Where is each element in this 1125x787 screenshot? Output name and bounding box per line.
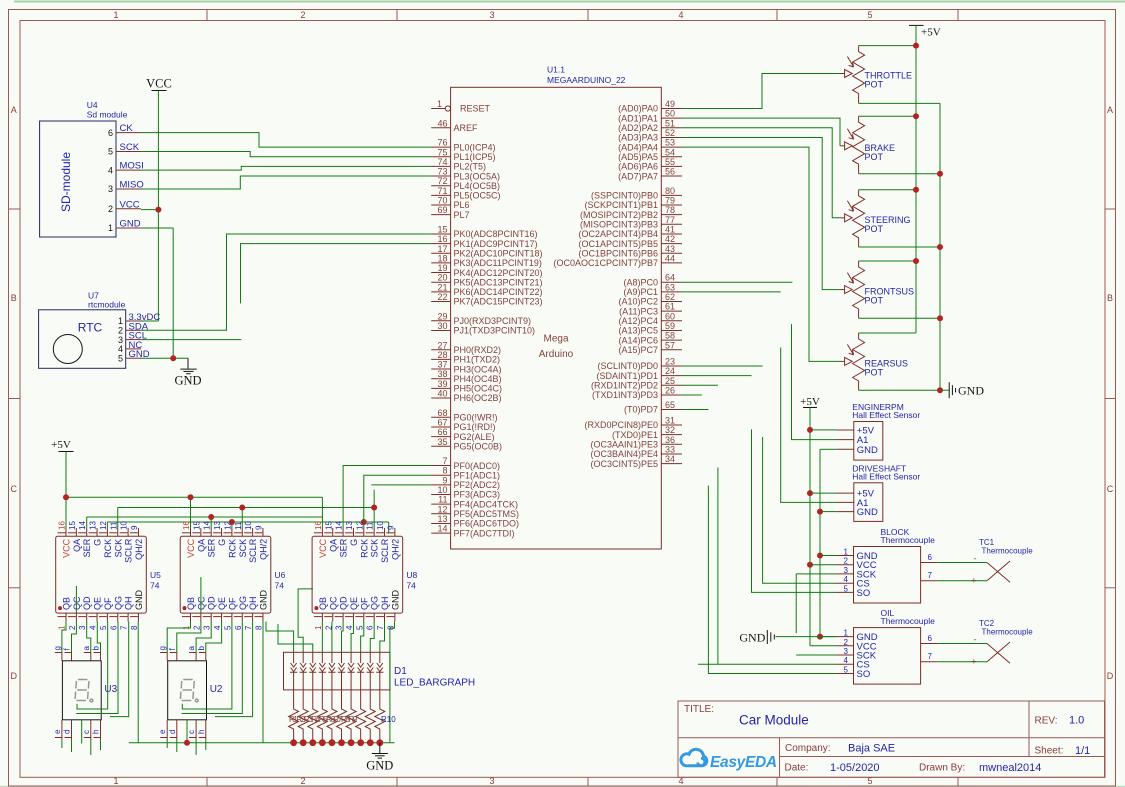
svg-text:RTC: RTC <box>78 321 103 335</box>
svg-text:57: 57 <box>665 340 675 350</box>
svg-text:SCK: SCK <box>370 539 380 558</box>
svg-text:RESET: RESET <box>460 104 491 114</box>
svg-text:62: 62 <box>665 292 675 302</box>
wire pot GND rail <box>859 103 943 393</box>
svg-text:U1.1: U1.1 <box>547 65 565 75</box>
svg-text:50: 50 <box>665 109 675 119</box>
svg-text:Thermocouple: Thermocouple <box>881 535 936 545</box>
svg-text:(OC0AOC1CPCINT7)PB7: (OC0AOC1CPCINT7)PB7 <box>553 258 658 268</box>
svg-text:RCK: RCK <box>359 539 369 558</box>
svg-text:Sd module: Sd module <box>87 110 128 120</box>
wire U5 outputs to U3 <box>62 586 129 755</box>
svg-text:(SSPCINT0)PB0: (SSPCINT0)PB0 <box>591 191 658 201</box>
svg-text:G: G <box>349 539 359 546</box>
svg-text:35: 35 <box>437 437 447 447</box>
svg-text:9: 9 <box>130 525 139 530</box>
svg-text:QD: QD <box>339 596 349 610</box>
svg-text:4: 4 <box>89 625 98 630</box>
svg-text:Arduino: Arduino <box>539 349 574 360</box>
wire PC0 stub <box>682 281 792 283</box>
svg-text:POT: POT <box>865 80 884 90</box>
svg-text:12: 12 <box>355 521 364 530</box>
power symbol +5V (pots) <box>909 25 941 45</box>
svg-text:b: b <box>197 646 206 651</box>
svg-text:e: e <box>158 729 167 734</box>
svg-text:VCC: VCC <box>62 538 72 558</box>
svg-text:5: 5 <box>867 10 872 20</box>
svg-text:GND: GND <box>174 374 201 388</box>
svg-text:MOSI: MOSI <box>120 161 144 172</box>
svg-text:R10: R10 <box>381 715 396 724</box>
ground symbol GND (below RTC) <box>174 358 201 387</box>
svg-text:26: 26 <box>665 386 675 396</box>
svg-text:QG: QG <box>238 596 248 610</box>
svg-text:GND: GND <box>258 590 268 611</box>
svg-text:6: 6 <box>108 128 113 138</box>
svg-text:VCC: VCC <box>318 538 328 558</box>
svg-text:Company:: Company: <box>785 743 831 754</box>
svg-text:2: 2 <box>844 557 849 566</box>
svg-text:+5V: +5V <box>921 27 941 39</box>
potentiometer RP3 STEERING POT <box>840 190 911 247</box>
svg-text:QG: QG <box>113 596 123 610</box>
svg-text:h: h <box>92 730 101 734</box>
svg-text:SCLR: SCLR <box>248 538 258 563</box>
svg-text:5: 5 <box>118 353 123 363</box>
wire PA1 to BRAKE wiper <box>682 118 840 146</box>
svg-text:16: 16 <box>437 234 447 244</box>
svg-text:60: 60 <box>665 311 675 321</box>
wire PF2 stub <box>371 484 431 486</box>
svg-text:15: 15 <box>324 521 333 530</box>
svg-text:PG0(!WR!): PG0(!WR!) <box>454 413 498 423</box>
svg-text:65: 65 <box>665 400 675 410</box>
svg-text:5: 5 <box>99 625 108 630</box>
svg-text:59: 59 <box>665 321 675 331</box>
potentiometer RP4 FRONTSUS POT <box>840 261 914 318</box>
svg-text:(SCLINT0)PD0: (SCLINT0)PD0 <box>597 361 658 371</box>
svg-text:SER: SER <box>207 538 217 557</box>
svg-text:70: 70 <box>437 196 447 206</box>
svg-text:PH6(OC2B): PH6(OC2B) <box>454 393 502 403</box>
svg-text:9: 9 <box>254 525 263 530</box>
svg-text:g: g <box>53 646 62 650</box>
svg-text:(RXD0PCIN8)PE0: (RXD0PCIN8)PE0 <box>584 420 658 430</box>
IC U8 74 shift register <box>312 521 417 630</box>
svg-text:73: 73 <box>437 167 447 177</box>
svg-text:PK2(ADC10PCINT18): PK2(ADC10PCINT18) <box>454 248 543 258</box>
wire VCC net <box>141 91 161 322</box>
svg-text:5: 5 <box>355 625 364 630</box>
svg-text:51: 51 <box>665 118 675 128</box>
svg-text:h: h <box>197 730 206 734</box>
svg-text:PL6: PL6 <box>454 200 470 210</box>
svg-text:10: 10 <box>437 485 447 495</box>
svg-text:(RXD1INT2)PD2: (RXD1INT2)PD2 <box>591 381 658 391</box>
svg-text:(TXD0)PE1: (TXD0)PE1 <box>612 430 658 440</box>
svg-text:PL0(ICP4): PL0(ICP4) <box>454 142 496 152</box>
svg-text:Mega: Mega <box>543 334 568 345</box>
wire U5 GND drop <box>137 622 139 743</box>
wire RCK rail <box>107 519 388 534</box>
title block <box>678 701 1105 777</box>
wire MOSI to PL2 <box>141 166 431 170</box>
svg-text:7: 7 <box>376 625 385 630</box>
svg-text:52: 52 <box>665 128 675 138</box>
wire ENGINERPM A1 <box>792 324 837 440</box>
svg-text:U2: U2 <box>210 684 223 695</box>
svg-text:SCK: SCK <box>238 539 248 558</box>
svg-text:6: 6 <box>366 625 375 630</box>
svg-text:74: 74 <box>437 157 447 167</box>
svg-text:4: 4 <box>844 575 849 584</box>
svg-text:QF: QF <box>227 597 237 610</box>
svg-text:QH: QH <box>248 597 258 611</box>
svg-text:QA: QA <box>72 539 82 552</box>
svg-text:1: 1 <box>113 10 118 20</box>
svg-text:8: 8 <box>442 466 447 476</box>
wire GND to BLOCK GND <box>820 555 836 557</box>
svg-text:Car Module: Car Module <box>739 713 809 728</box>
svg-text:1: 1 <box>314 625 323 630</box>
svg-text:76: 76 <box>437 138 447 148</box>
svg-text:38: 38 <box>437 369 447 379</box>
svg-text:27: 27 <box>437 340 447 350</box>
svg-text:(A14)PC6: (A14)PC6 <box>618 335 658 345</box>
svg-text:Hall Effect Sensor: Hall Effect Sensor <box>852 471 920 481</box>
svg-text:G: G <box>93 539 103 546</box>
svg-text:74: 74 <box>150 581 160 591</box>
svg-text:PL2(T5): PL2(T5) <box>454 162 487 172</box>
wire +5V pot rail <box>859 43 919 333</box>
svg-text:4: 4 <box>678 10 683 20</box>
svg-text:(AD1)PA1: (AD1)PA1 <box>618 113 658 123</box>
svg-text:24: 24 <box>665 366 675 376</box>
svg-text:AREF: AREF <box>454 123 479 133</box>
svg-text:GND: GND <box>134 590 144 611</box>
svg-text:25: 25 <box>665 376 675 386</box>
svg-text:+: + <box>971 657 976 667</box>
svg-text:PL4(OC5B): PL4(OC5B) <box>454 181 501 191</box>
svg-text:(A15)PC7: (A15)PC7 <box>618 345 658 355</box>
svg-text:2: 2 <box>844 638 849 647</box>
potentiometer RP5 REARSUS POT <box>840 333 908 390</box>
svg-text:13: 13 <box>213 521 222 530</box>
IC U1 MEGAARDUINO_22 <box>431 65 682 550</box>
svg-text:2: 2 <box>192 625 201 630</box>
svg-text:GND: GND <box>390 590 400 611</box>
svg-text:41: 41 <box>665 224 675 234</box>
svg-text:(T0)PD7: (T0)PD7 <box>624 405 658 415</box>
svg-text:(A10)PC2: (A10)PC2 <box>618 297 658 307</box>
svg-text:14: 14 <box>78 521 87 530</box>
svg-text:EasyEDA: EasyEDA <box>710 754 777 771</box>
svg-text:REV:: REV: <box>1035 716 1058 727</box>
wire SD/RTC GND net <box>141 228 188 361</box>
svg-text:31: 31 <box>665 416 675 426</box>
svg-text:10: 10 <box>376 521 385 530</box>
svg-text:PL5(OC5C): PL5(OC5C) <box>454 191 501 201</box>
svg-text:69: 69 <box>437 205 447 215</box>
resistors R1-R10 <box>289 690 397 743</box>
svg-text:U5: U5 <box>150 570 161 580</box>
svg-text:d: d <box>63 730 72 734</box>
svg-text:(A12)PC4: (A12)PC4 <box>618 316 658 326</box>
svg-text:11: 11 <box>109 521 118 530</box>
wire PK1 stub <box>241 244 432 304</box>
svg-text:1.0: 1.0 <box>1069 715 1084 727</box>
svg-text:(A11)PC3: (A11)PC3 <box>619 306 658 316</box>
ground symbol GND (OIL) <box>739 630 836 645</box>
svg-text:64: 64 <box>665 273 675 283</box>
wire GND chain to OIL GND <box>820 636 836 638</box>
svg-text:QB: QB <box>186 597 196 610</box>
power symbol +5V (sensors) <box>800 396 820 646</box>
svg-text:QA: QA <box>196 539 206 552</box>
svg-text:CK: CK <box>120 123 134 134</box>
svg-text:44: 44 <box>665 253 675 263</box>
svg-text:7: 7 <box>928 571 933 580</box>
svg-text:2: 2 <box>300 10 305 20</box>
svg-text:32: 32 <box>665 425 675 435</box>
svg-text:mwneal2014: mwneal2014 <box>979 762 1041 774</box>
svg-text:GND: GND <box>120 219 141 230</box>
svg-text:SO: SO <box>857 588 871 599</box>
svg-text:C: C <box>1107 484 1114 494</box>
svg-text:U6: U6 <box>275 570 286 580</box>
wire SCK chain BLOCK-OIL <box>796 574 836 655</box>
svg-text:QE: QE <box>349 597 359 610</box>
svg-text:QF: QF <box>359 597 369 610</box>
svg-text:Thermocouple: Thermocouple <box>982 628 1034 637</box>
svg-text:3: 3 <box>108 184 113 194</box>
wire display GND rail <box>129 739 395 746</box>
power symbol VCC <box>146 77 172 91</box>
svg-text:58: 58 <box>665 331 675 341</box>
svg-text:R1R2R3R4R5R6R7R8R9: R1R2R3R4R5R6R7R8R9 <box>289 715 358 724</box>
svg-text:39: 39 <box>437 379 447 389</box>
svg-text:9: 9 <box>386 525 395 530</box>
wire +5V to BLOCK VCC <box>810 564 836 566</box>
svg-text:53: 53 <box>665 138 675 148</box>
thermocouple TC1 <box>938 538 1033 586</box>
svg-text:TITLE:: TITLE: <box>684 704 714 715</box>
svg-text:67: 67 <box>437 417 447 427</box>
svg-text:PF0(ADC0): PF0(ADC0) <box>454 461 501 471</box>
svg-text:6: 6 <box>928 634 933 643</box>
svg-text:4: 4 <box>108 165 113 175</box>
svg-text:PF4(ADC4TCK): PF4(ADC4TCK) <box>454 499 519 509</box>
svg-text:g: g <box>158 646 167 650</box>
svg-text:PK6(ADC14PCINT22): PK6(ADC14PCINT22) <box>454 287 543 297</box>
svg-text:75: 75 <box>437 147 447 157</box>
svg-text:4: 4 <box>213 625 222 630</box>
svg-text:7: 7 <box>442 456 447 466</box>
svg-text:GND: GND <box>366 759 393 773</box>
svg-text:74: 74 <box>406 581 416 591</box>
svg-text:PK0(ADC8PCINT16): PK0(ADC8PCINT16) <box>454 229 538 239</box>
svg-text:1/1: 1/1 <box>1075 745 1090 757</box>
svg-text:PF7(ADC7TDI): PF7(ADC7TDI) <box>454 528 515 538</box>
svg-text:SCK: SCK <box>120 142 140 153</box>
svg-text:11: 11 <box>438 495 447 505</box>
wire PA4 to REARSUS wiper <box>682 147 840 361</box>
wire PA3 to FRONTSUS wiper <box>682 137 840 289</box>
svg-text:10: 10 <box>120 521 129 530</box>
svg-text:15: 15 <box>192 521 201 530</box>
svg-text:43: 43 <box>665 244 675 254</box>
svg-text:PH0(RXD2): PH0(RXD2) <box>454 345 502 355</box>
thermocouple TC2 <box>938 619 1033 667</box>
svg-text:+5V: +5V <box>800 396 820 408</box>
svg-text:PK3(ADC11PCINT19): PK3(ADC11PCINT19) <box>454 258 542 268</box>
wire CK to PL0 <box>141 133 431 148</box>
wire SER rail <box>87 514 322 528</box>
svg-text:QB: QB <box>62 597 72 610</box>
svg-text:U4: U4 <box>87 100 98 110</box>
svg-text:PH5(OC4C): PH5(OC4C) <box>454 384 503 394</box>
svg-text:Thermocouple: Thermocouple <box>881 616 936 626</box>
svg-text:55: 55 <box>665 157 675 167</box>
svg-text:13: 13 <box>437 514 447 524</box>
svg-text:PF5(ADC5TMS): PF5(ADC5TMS) <box>454 509 520 519</box>
svg-text:PJ0(RXD3PCINT9): PJ0(RXD3PCINT9) <box>454 316 532 326</box>
svg-text:3: 3 <box>203 625 212 630</box>
svg-text:+: + <box>971 576 976 586</box>
svg-text:QH: QH <box>380 597 390 611</box>
svg-text:SER: SER <box>339 538 349 557</box>
svg-text:SD-module: SD-module <box>59 152 73 212</box>
wire MISO to PL3 <box>141 176 431 189</box>
svg-text:(MOSIPCINT2)PB2: (MOSIPCINT2)PB2 <box>580 210 658 220</box>
svg-text:-: - <box>974 554 977 564</box>
svg-text:c: c <box>82 730 91 734</box>
svg-text:PH4(OC4B): PH4(OC4B) <box>454 374 502 384</box>
wire PA2 to STEERING wiper <box>682 128 840 218</box>
svg-text:QE: QE <box>93 597 103 610</box>
svg-text:2: 2 <box>68 625 77 630</box>
svg-text:Sheet:: Sheet: <box>1035 746 1064 757</box>
svg-text:2: 2 <box>108 204 113 214</box>
IC U5 74 shift register <box>56 521 161 630</box>
svg-text:61: 61 <box>665 302 675 312</box>
svg-text:B: B <box>11 293 17 303</box>
svg-text:D1: D1 <box>394 666 407 677</box>
wire U6 GND drop <box>262 622 264 743</box>
svg-text:77: 77 <box>665 215 675 225</box>
svg-text:6: 6 <box>234 625 243 630</box>
svg-text:34: 34 <box>665 454 675 464</box>
svg-text:46: 46 <box>437 118 447 128</box>
EasyEDA logo <box>681 749 707 765</box>
svg-text:1: 1 <box>844 548 849 557</box>
svg-text:d: d <box>168 730 177 734</box>
svg-text:QC: QC <box>328 596 338 610</box>
svg-text:1: 1 <box>844 629 849 638</box>
wire PC1 stub <box>682 291 781 293</box>
svg-text:PF1(ADC1): PF1(ADC1) <box>454 470 501 480</box>
svg-text:Hall Effect Sensor: Hall Effect Sensor <box>852 410 920 420</box>
svg-text:33: 33 <box>665 445 675 455</box>
svg-text:PK1(ADC9PCINT17): PK1(ADC9PCINT17) <box>454 239 538 249</box>
wire PF1 to RCK rail <box>364 475 431 522</box>
svg-text:5: 5 <box>844 584 849 593</box>
svg-text:12: 12 <box>437 504 447 514</box>
svg-text:5: 5 <box>223 625 232 630</box>
svg-text:5: 5 <box>108 147 113 157</box>
IC U11 BLOCK thermocouple <box>836 527 938 603</box>
svg-text:(AD3)PA3: (AD3)PA3 <box>618 133 658 143</box>
svg-text:PL3(OC5A): PL3(OC5A) <box>454 171 501 181</box>
svg-text:VCC: VCC <box>120 199 140 210</box>
svg-text:GND: GND <box>857 507 878 518</box>
svg-text:LED_BARGRAPH: LED_BARGRAPH <box>394 678 475 689</box>
svg-text:3: 3 <box>489 10 494 20</box>
svg-text:30: 30 <box>437 321 447 331</box>
svg-text:14: 14 <box>437 524 447 534</box>
svg-text:3: 3 <box>844 566 849 575</box>
svg-text:(AD5)PA5: (AD5)PA5 <box>618 152 658 162</box>
svg-text:(A8)PC0: (A8)PC0 <box>623 277 658 287</box>
svg-text:PF6(ADC6TDO): PF6(ADC6TDO) <box>454 519 520 529</box>
svg-text:A: A <box>11 105 17 115</box>
power symbol +5V (registers) <box>51 439 73 497</box>
wire U6 outputs to U2 <box>167 577 252 755</box>
svg-text:9: 9 <box>442 475 447 485</box>
wire SCL stub <box>141 339 241 341</box>
svg-text:11: 11 <box>234 521 243 530</box>
svg-text:16: 16 <box>314 521 323 530</box>
svg-text:RCK: RCK <box>103 539 113 558</box>
svg-text:SCK: SCK <box>113 539 123 558</box>
svg-text:17: 17 <box>437 244 447 254</box>
svg-text:(AD2)PA2: (AD2)PA2 <box>618 123 658 133</box>
wire +5V to ENGINERPM <box>810 429 836 431</box>
svg-text:15: 15 <box>68 521 77 530</box>
svg-text:1: 1 <box>58 625 67 630</box>
wire PD3 stub <box>682 394 702 396</box>
svg-text:15: 15 <box>437 224 447 234</box>
svg-text:68: 68 <box>437 408 447 418</box>
svg-text:VCC: VCC <box>146 77 172 91</box>
wire PA0 to THROTTLE wiper <box>682 74 840 109</box>
svg-text:(SDAINT1)PD1: (SDAINT1)PD1 <box>596 371 658 381</box>
svg-text:U3: U3 <box>104 684 117 695</box>
svg-text:SO: SO <box>857 669 871 680</box>
svg-text:(A9)PC1: (A9)PC1 <box>623 287 658 297</box>
svg-text:MEGAARDUINO_22: MEGAARDUINO_22 <box>547 75 626 85</box>
svg-text:rtcmodule: rtcmodule <box>88 300 126 310</box>
svg-text:3: 3 <box>78 625 87 630</box>
svg-text:Thermocouple: Thermocouple <box>982 547 1034 556</box>
svg-text:PK5(ADC13PCINT21): PK5(ADC13PCINT21) <box>454 277 543 287</box>
svg-text:QH/2: QH/2 <box>134 539 144 560</box>
svg-text:SCLR: SCLR <box>380 538 390 563</box>
svg-text:D: D <box>11 671 18 681</box>
svg-text:13: 13 <box>345 521 354 530</box>
wire PF0 to U8 SER <box>343 466 431 528</box>
svg-text:c: c <box>187 730 196 734</box>
sensor U9 ENGINERPM hall sensor <box>836 402 920 460</box>
svg-text:C: C <box>11 484 18 494</box>
svg-text:QE: QE <box>217 597 227 610</box>
svg-text:QH/2: QH/2 <box>390 539 400 560</box>
svg-text:22: 22 <box>437 292 447 302</box>
svg-text:21: 21 <box>437 282 447 292</box>
svg-text:QH/2: QH/2 <box>258 539 268 560</box>
svg-text:42: 42 <box>665 234 675 244</box>
svg-text:(AD6)PA6: (AD6)PA6 <box>618 162 658 172</box>
